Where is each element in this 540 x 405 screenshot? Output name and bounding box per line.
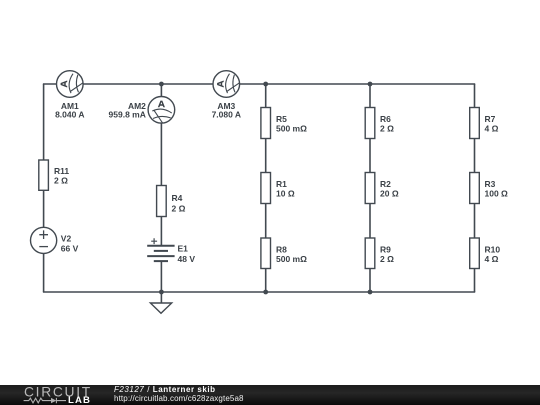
svg-text:8.040 A: 8.040 A — [55, 109, 84, 119]
resistor R5 — [261, 108, 271, 139]
svg-text:R5: R5 — [276, 114, 287, 124]
wire R6 R2 R9 column — [369, 84, 371, 292]
svg-text:R2: R2 — [380, 179, 391, 189]
wire E1 to bottom net — [160, 261, 162, 292]
svg-text:R3: R3 — [485, 179, 496, 189]
node junction top AM2 branch — [159, 82, 164, 87]
svg-text:4 Ω: 4 Ω — [485, 124, 499, 134]
battery E1 — [147, 238, 174, 261]
svg-text:E1: E1 — [178, 244, 189, 254]
resistor R1 — [261, 173, 271, 204]
svg-text:R4: R4 — [172, 193, 183, 203]
svg-text:R6: R6 — [380, 114, 391, 124]
svg-text:48 V: 48 V — [178, 254, 196, 264]
svg-text:100 Ω: 100 Ω — [485, 189, 509, 199]
wire R5 R1 R8 column — [265, 84, 267, 292]
svg-text:4 Ω: 4 Ω — [485, 254, 499, 264]
resistor R9 — [365, 238, 375, 269]
node junction bottom R9 column — [368, 290, 373, 295]
resistor R2 — [365, 173, 375, 204]
resistor R4 — [157, 186, 167, 217]
svg-text:500 mΩ: 500 mΩ — [276, 254, 307, 264]
wire right vertical branch (R7 R3 R10 column) — [474, 84, 476, 292]
svg-text:20 Ω: 20 Ω — [380, 189, 399, 199]
resistor R7 — [470, 108, 480, 139]
svg-text:2 Ω: 2 Ω — [380, 124, 394, 134]
svg-text:7.080 A: 7.080 A — [212, 109, 241, 119]
ammeter AM2 — [148, 97, 175, 124]
svg-text:66 V: 66 V — [61, 244, 79, 254]
node junction bottom ground — [159, 290, 164, 295]
ammeter AM1 — [57, 71, 84, 98]
ammeter AM3 — [213, 71, 240, 98]
node junction top R6 column — [368, 82, 373, 87]
resistor R10 — [470, 238, 480, 269]
svg-text:R8: R8 — [276, 244, 287, 254]
voltage source V2 — [30, 227, 56, 253]
svg-text:R11: R11 — [54, 166, 69, 176]
svg-text:2 Ω: 2 Ω — [54, 176, 68, 186]
resistor R8 — [261, 238, 271, 269]
resistor R11 — [39, 160, 49, 190]
svg-text:R1: R1 — [276, 179, 287, 189]
wire left vertical branch — [43, 84, 45, 292]
svg-text:R10: R10 — [485, 244, 501, 254]
node junction bottom R8 column — [263, 290, 268, 295]
ground — [150, 303, 171, 313]
wire top horizontal net — [43, 83, 475, 85]
wire bottom horizontal net — [43, 291, 475, 293]
resistor R3 — [470, 173, 480, 204]
resistor R6 — [365, 108, 375, 139]
wire ground stem — [160, 292, 162, 303]
svg-text:R7: R7 — [485, 114, 496, 124]
svg-text:2 Ω: 2 Ω — [172, 203, 186, 213]
svg-text:2 Ω: 2 Ω — [380, 254, 394, 264]
svg-text:500 mΩ: 500 mΩ — [276, 124, 307, 134]
svg-text:959.8 mA: 959.8 mA — [109, 109, 146, 119]
svg-text:R9: R9 — [380, 244, 391, 254]
svg-text:V2: V2 — [61, 234, 72, 244]
svg-text:10 Ω: 10 Ω — [276, 189, 295, 199]
svg-text:LAB: LAB — [68, 395, 91, 405]
wire AM2/R4/E1 branch upper — [160, 84, 162, 246]
node junction top R5 column — [263, 82, 268, 87]
